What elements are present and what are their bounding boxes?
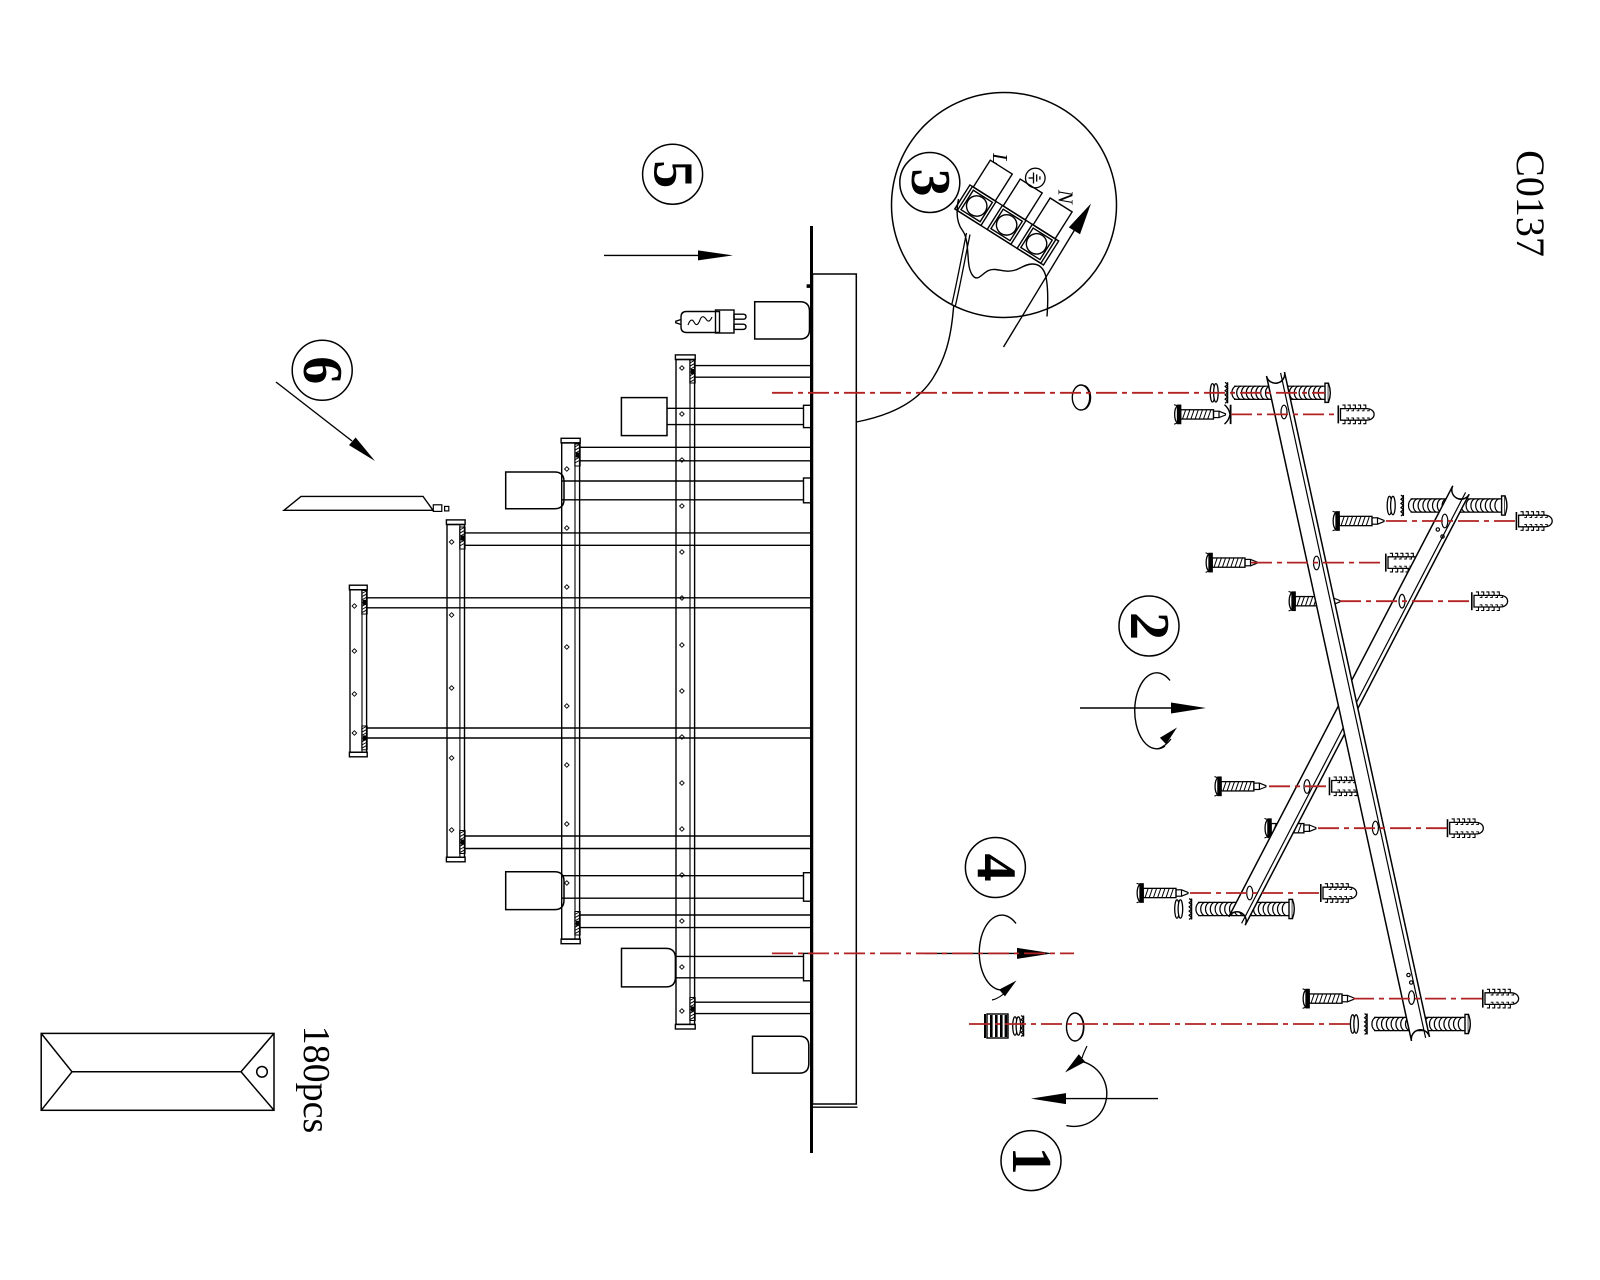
threaded attachment hatch blocks <box>362 591 367 615</box>
screw+anchor row6 <box>1215 777 1266 797</box>
holder H2 <box>506 472 564 509</box>
balloon 3 <box>899 153 961 213</box>
knurled cap nut <box>985 1014 1008 1038</box>
blob outline of canopy in detail <box>957 199 1048 317</box>
rail 1 <box>349 585 367 757</box>
svg-text:3: 3 <box>899 169 961 197</box>
terminal block 3-pole <box>955 158 1076 265</box>
svg-text:C0137: C0137 <box>1508 150 1553 257</box>
G9 socket top <box>755 302 810 339</box>
connecting rods to canopy <box>367 598 811 608</box>
svg-text:180pcs: 180pcs <box>295 1026 337 1134</box>
arrow step5 <box>604 250 733 260</box>
arrow step2 with rotation <box>1080 673 1206 749</box>
detail blowup circle <box>892 93 1117 318</box>
screw+anchor row5 <box>1289 591 1340 611</box>
holder H3 <box>506 872 564 910</box>
screw+anchor row7 <box>1265 818 1316 838</box>
small clip on canopy <box>807 284 811 288</box>
svg-text:1: 1 <box>1000 1147 1062 1175</box>
leader arrow step6 <box>276 382 375 461</box>
G9 halogen bulb <box>676 310 746 333</box>
balloon 1 <box>1000 1131 1062 1191</box>
screw+anchor row4 <box>1206 553 1257 573</box>
rail 2 <box>446 520 465 862</box>
balloon 2 <box>1118 596 1180 656</box>
mounting bracket arm B <box>1229 486 1469 925</box>
lamp arm rods with sleeve ends <box>667 405 812 427</box>
mounting bracket arm A <box>1267 372 1430 1041</box>
holder H5 bottom <box>753 1036 809 1073</box>
balloon 4 <box>964 838 1026 898</box>
rivet dots on rails <box>352 366 684 1014</box>
svg-text:4: 4 <box>964 854 1026 882</box>
machine screw row m3 <box>1387 496 1395 514</box>
earth symbol <box>1026 168 1046 188</box>
svg-text:L: L <box>988 152 1012 165</box>
ceiling base plate thick edge line <box>810 226 813 1153</box>
wire from canopy to terminal detail <box>857 305 954 422</box>
screw+anchor row3 <box>1333 511 1384 531</box>
holder H4 <box>622 948 676 987</box>
disc washer on row0 <box>1072 385 1090 410</box>
svg-text:N: N <box>1054 189 1078 205</box>
svg-text:5: 5 <box>642 160 704 188</box>
ring washer <box>1067 1013 1084 1041</box>
machine screw row m0 <box>1210 384 1218 402</box>
crystal prism 180pcs <box>41 1033 274 1110</box>
screw row0b with flare <box>1174 405 1225 425</box>
rail 3 <box>561 438 580 943</box>
rail 4 <box>675 355 695 1029</box>
cord into terminal block <box>952 233 967 305</box>
red center lines <box>772 393 1516 1024</box>
arrow step1 with rotation <box>1031 1046 1158 1126</box>
crystal rod blade <box>284 496 433 510</box>
screw+anchor row9 <box>1303 989 1354 1009</box>
bracket slot holes <box>1247 405 1448 1004</box>
svg-text:6: 6 <box>291 356 353 384</box>
svg-text:2: 2 <box>1118 612 1180 640</box>
balloon 5 <box>642 144 704 204</box>
arrow step4 with rotation <box>925 915 1053 1000</box>
screw+anchor row8 <box>1137 883 1188 903</box>
holder H1 square <box>621 398 667 436</box>
canopy rectangle <box>813 274 857 1104</box>
machine screw row m10 <box>1350 1015 1358 1033</box>
machine screw row m8 <box>1175 900 1183 918</box>
arrow in detail <box>1004 221 1081 347</box>
balloon 6 <box>291 340 353 400</box>
